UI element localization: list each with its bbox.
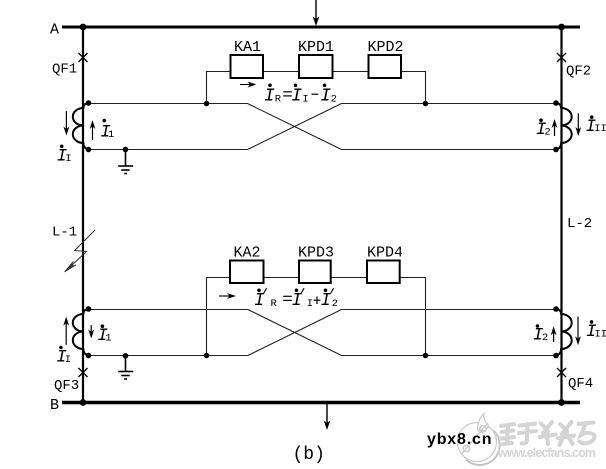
svg-text:QF2: QF2 bbox=[566, 64, 591, 80]
svg-text:www.elecfans.com: www.elecfans.com bbox=[497, 446, 596, 460]
svg-text:I: I bbox=[307, 298, 313, 310]
svg-text:2: 2 bbox=[544, 127, 550, 139]
svg-text:KPD1: KPD1 bbox=[298, 39, 334, 56]
svg-text:QF4: QF4 bbox=[568, 376, 593, 392]
svg-text:A: A bbox=[50, 22, 59, 39]
svg-text:KA2: KA2 bbox=[234, 245, 261, 262]
svg-text:I: I bbox=[254, 291, 265, 311]
svg-text:I: I bbox=[302, 93, 308, 105]
svg-text:I: I bbox=[321, 291, 332, 311]
svg-text:1: 1 bbox=[105, 332, 111, 344]
svg-text:I: I bbox=[264, 87, 275, 107]
svg-text:I: I bbox=[292, 291, 303, 311]
svg-text:QF1: QF1 bbox=[52, 62, 77, 78]
svg-text:1: 1 bbox=[108, 129, 114, 141]
svg-text:L-1: L-1 bbox=[52, 225, 77, 241]
svg-text:(b): (b) bbox=[293, 445, 325, 465]
svg-text:ybx8.cn: ybx8.cn bbox=[427, 431, 492, 448]
svg-text:L-2: L-2 bbox=[567, 216, 592, 232]
svg-text:2: 2 bbox=[331, 93, 337, 105]
svg-text:I: I bbox=[65, 153, 71, 165]
svg-text:R: R bbox=[271, 298, 278, 310]
svg-text:KA1: KA1 bbox=[234, 39, 261, 56]
svg-text:II: II bbox=[595, 328, 606, 340]
svg-text:KPD4: KPD4 bbox=[367, 245, 403, 262]
svg-text:2: 2 bbox=[542, 332, 548, 344]
svg-text:I: I bbox=[65, 354, 71, 366]
svg-text:KPD3: KPD3 bbox=[298, 245, 334, 262]
svg-text:2: 2 bbox=[332, 298, 338, 310]
svg-text:B: B bbox=[50, 397, 59, 414]
svg-text:R: R bbox=[275, 93, 282, 105]
svg-text:QF3: QF3 bbox=[54, 378, 79, 394]
svg-text:KPD2: KPD2 bbox=[368, 39, 404, 56]
svg-text:I: I bbox=[291, 87, 302, 107]
svg-text:II: II bbox=[594, 123, 606, 135]
